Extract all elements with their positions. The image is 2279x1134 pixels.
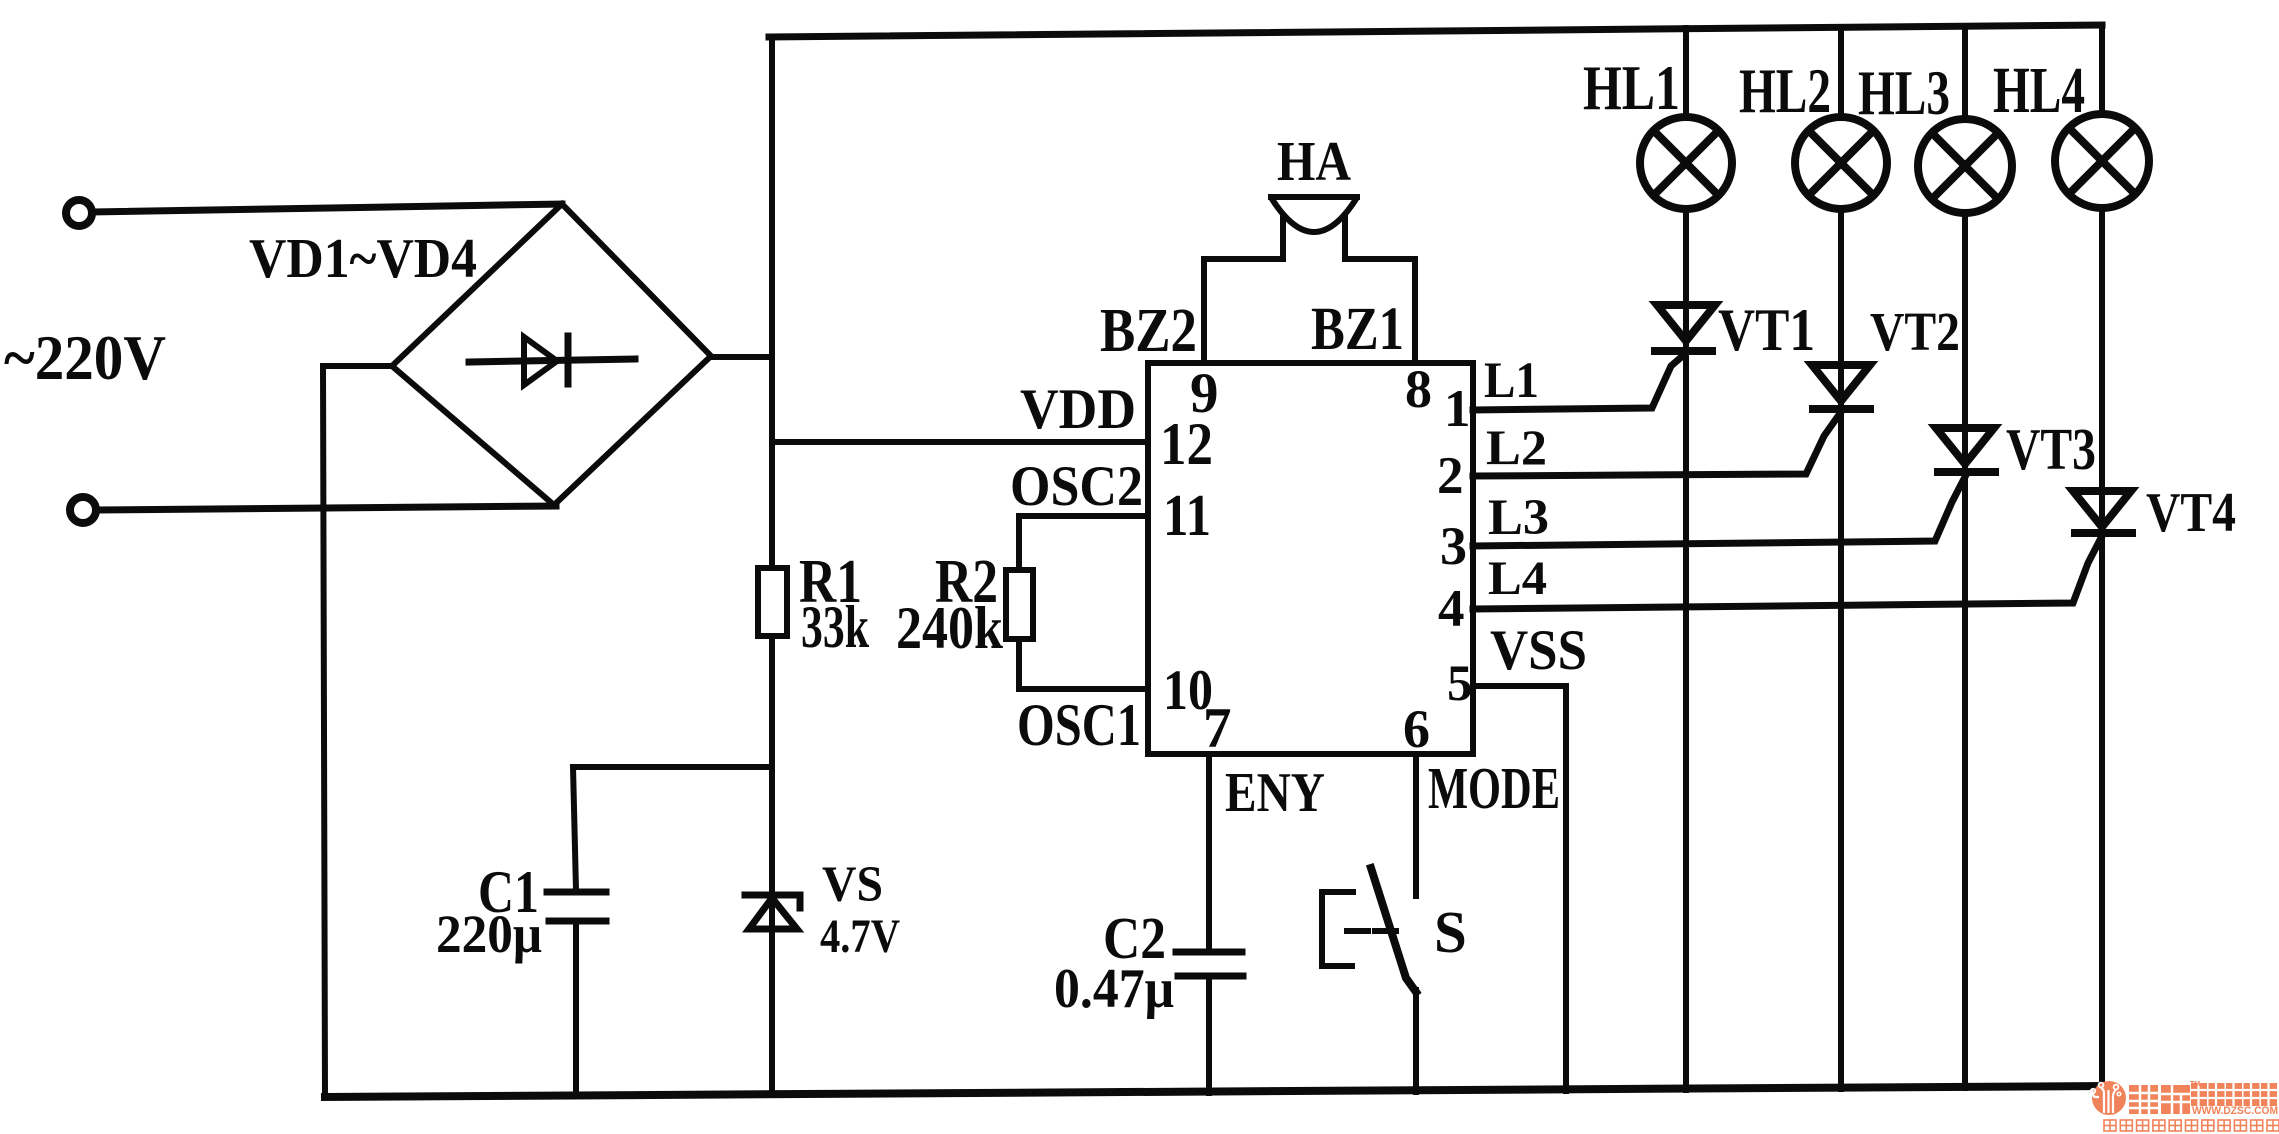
svg-text:7: 7: [1203, 697, 1232, 760]
lamp HL4: [2055, 114, 2149, 208]
svg-text:VT4: VT4: [2146, 482, 2236, 544]
svg-text:1: 1: [1444, 380, 1471, 438]
svg-text:HL1: HL1: [1583, 52, 1680, 123]
lamp HL1: [1640, 117, 1732, 209]
svg-text:VSS: VSS: [1490, 619, 1587, 682]
thyristor VT3: [1936, 428, 1995, 472]
svg-text:5: 5: [1447, 656, 1473, 712]
wire bottom rail: [325, 1086, 2104, 1097]
svg-text:HL3: HL3: [1858, 58, 1950, 128]
svg-text:L4: L4: [1488, 552, 1547, 605]
svg-text:L1: L1: [1484, 353, 1539, 409]
svg-text:33k: 33k: [801, 594, 869, 660]
wire top AC input: [93, 204, 562, 212]
bridge rectifier VD1~VD4: [392, 204, 711, 505]
svg-text:BZ1: BZ1: [1311, 296, 1404, 363]
buzzer HA: [1204, 197, 1415, 363]
svg-text:L3: L3: [1488, 490, 1549, 546]
svg-text:WWW.DZSC.COM: WWW.DZSC.COM: [2192, 1105, 2278, 1117]
wire OSC1 (pin 10): [1019, 639, 1148, 689]
wire L1 (pin 1) to VT1 gate: [1473, 353, 1686, 410]
svg-text:3: 3: [1440, 516, 1467, 576]
resistor R2: [1006, 570, 1033, 639]
svg-text:HL4: HL4: [1993, 54, 2085, 127]
svg-text:VT3: VT3: [2006, 416, 2096, 482]
svg-text:VS: VS: [822, 857, 883, 913]
IC U1 body: [1148, 363, 1473, 754]
svg-text:VT1: VT1: [1718, 297, 1815, 363]
svg-text:8: 8: [1405, 359, 1432, 419]
wire bottom AC input: [97, 506, 556, 510]
svg-text:VT2: VT2: [1870, 301, 1960, 362]
svg-text:0.47μ: 0.47μ: [1054, 958, 1174, 1020]
switch S: [1322, 868, 1416, 1092]
AC terminal bottom: [70, 497, 96, 523]
svg-text:HL2: HL2: [1739, 55, 1831, 126]
svg-text:OSC1: OSC1: [1017, 692, 1141, 758]
capacitor C2: [1176, 952, 1243, 976]
wire bridge right vertex to main vertical: [711, 354, 772, 360]
thyristor VT4: [2073, 491, 2132, 533]
capacitor C1: [547, 892, 606, 921]
lamp HL2: [1795, 117, 1887, 209]
wire lamp branch HL3: [1962, 26, 1968, 1088]
thyristor VT2: [1812, 365, 1870, 409]
watermark logo circle: [2091, 1081, 2126, 1115]
wire bridge left vertex to ground rail corner: [323, 366, 392, 1097]
wire C1 branch: [573, 767, 772, 890]
svg-text:VD1~VD4: VD1~VD4: [249, 228, 477, 290]
wire lamp branch HL2: [1838, 27, 1844, 1089]
svg-text:HA: HA: [1277, 131, 1351, 193]
svg-text:11: 11: [1163, 482, 1211, 548]
wire VSS (pin 5): [1473, 686, 1566, 1091]
svg-text:S: S: [1434, 899, 1467, 965]
svg-text:MODE: MODE: [1428, 755, 1560, 821]
watermark title 电子市场网 (approximated): [2191, 1083, 2277, 1106]
svg-text:220μ: 220μ: [436, 904, 542, 964]
wire VDD (pin 12): [772, 439, 1148, 445]
svg-text:VDD: VDD: [1020, 378, 1136, 441]
watermark slogan 专业电子元器件交易网站 (approximated): [2104, 1120, 2279, 1131]
wire C1 lower lead: [573, 924, 579, 1096]
wire ENY (pin 7) upper lead: [1206, 754, 1212, 949]
svg-text:240k: 240k: [896, 595, 1004, 661]
svg-text:L2: L2: [1486, 419, 1547, 475]
thyristor VT1: [1655, 305, 1715, 351]
lamp HL3: [1918, 119, 2012, 213]
svg-text:6: 6: [1403, 699, 1430, 759]
wire lamp branch HL1: [1683, 28, 1689, 1090]
wire L2 (pin 2) to VT2 gate: [1473, 412, 1841, 476]
wire MODE (pin 6): [1413, 754, 1419, 896]
wire OSC2 (pin 11): [1019, 516, 1148, 570]
resistor R1: [758, 568, 787, 636]
AC terminal top: [66, 200, 92, 226]
svg-text:TM: TM: [2190, 1081, 2200, 1088]
svg-text:4: 4: [1438, 580, 1465, 638]
svg-text:OSC2: OSC2: [1010, 455, 1143, 518]
wire main vertical bus: [769, 37, 775, 1094]
svg-text:ENY: ENY: [1225, 762, 1325, 824]
svg-text:BZ2: BZ2: [1100, 297, 1197, 365]
wire lamp branch HL4: [2099, 25, 2105, 1087]
wire L3 (pin 3) to VT3 gate: [1473, 475, 1966, 546]
svg-text:2: 2: [1437, 447, 1464, 505]
wire C2 lower lead: [1206, 979, 1212, 1093]
diode inside bridge: [469, 336, 635, 385]
svg-text:4.7V: 4.7V: [820, 910, 900, 963]
wire L4 (pin 4) to VT4 gate: [1473, 536, 2102, 609]
zener diode VS: [745, 895, 800, 929]
watermark title 维库 (approximated): [2129, 1085, 2190, 1114]
wire top rail: [769, 25, 2102, 37]
svg-text:~220V: ~220V: [4, 322, 166, 393]
svg-text:12: 12: [1160, 411, 1213, 477]
